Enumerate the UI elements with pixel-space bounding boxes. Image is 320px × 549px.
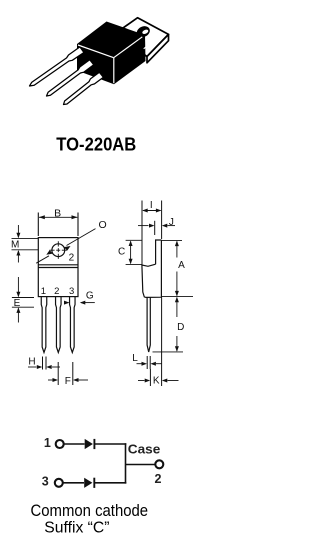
svg-text:O: O	[99, 219, 107, 231]
svg-text:L: L	[132, 353, 138, 364]
dim H	[28, 357, 60, 370]
dim D	[153, 297, 184, 352]
svg-text:TO-220AB: TO-220AB	[56, 134, 136, 154]
lead 2	[47, 60, 94, 96]
svg-text:3: 3	[42, 475, 49, 489]
front view outline	[38, 238, 78, 297]
svg-text:2: 2	[54, 286, 59, 297]
svg-text:1: 1	[44, 436, 51, 450]
wire D2 to junction	[94, 482, 126, 484]
lead 1	[30, 47, 84, 86]
svg-text:E: E	[14, 298, 21, 309]
terminal 1 circle	[56, 440, 64, 448]
mounting hole	[52, 244, 65, 257]
dim K	[138, 297, 179, 386]
dim B	[37, 213, 39, 237]
svg-text:3: 3	[69, 286, 74, 297]
tab hole inner highlight	[142, 29, 149, 35]
svg-text:K: K	[153, 376, 160, 387]
svg-text:B: B	[54, 207, 61, 219]
wire D1 to junction	[94, 443, 126, 445]
terminal 3 circle	[55, 479, 63, 487]
svg-text:Case: Case	[128, 441, 161, 456]
dim C	[126, 240, 143, 264]
tab mounting hole	[135, 24, 152, 39]
svg-text:G: G	[86, 291, 94, 302]
side tab	[156, 240, 162, 264]
svg-text:I: I	[150, 200, 153, 211]
dim F	[48, 362, 88, 385]
dim I	[141, 201, 143, 266]
common cathode junction wire	[125, 443, 127, 483]
wire pin1 to diode D1	[64, 443, 84, 445]
dim O leader	[67, 229, 96, 246]
front lead 1	[41, 297, 75, 353]
pin numbers 1 2 3	[41, 286, 74, 297]
svg-text:F: F	[65, 376, 71, 387]
dim E	[12, 277, 34, 323]
svg-text:1: 1	[41, 286, 46, 297]
svg-text:J: J	[169, 217, 174, 228]
front lead 3	[70, 297, 76, 353]
svg-text:D: D	[177, 322, 184, 333]
dim L	[137, 356, 163, 369]
svg-text:A: A	[178, 260, 185, 271]
svg-text:H: H	[28, 356, 35, 367]
hole centerlines	[49, 241, 67, 259]
diode D2	[84, 478, 92, 488]
front lead 2	[56, 297, 62, 353]
molded body	[77, 22, 146, 85]
diode D1	[85, 439, 93, 449]
dim G	[64, 301, 95, 305]
tab plate top face	[115, 18, 169, 57]
body-tab junction highlight	[144, 41, 154, 49]
body edge highlight front-right corner	[113, 58, 115, 83]
body edge highlight top-right	[114, 37, 143, 58]
tab/body seam lines	[38, 264, 78, 266]
wire pin3 to diode D2	[63, 482, 84, 484]
lead 3	[64, 72, 104, 104]
svg-text:2: 2	[69, 252, 75, 263]
svg-text:2: 2	[155, 472, 162, 486]
wire junction to case terminal	[126, 464, 156, 466]
dim J	[138, 221, 175, 235]
dim A	[162, 240, 194, 296]
svg-text:C: C	[118, 247, 125, 258]
tab plate thickness side	[147, 34, 169, 62]
side lead	[147, 297, 150, 352]
dim M	[12, 225, 39, 263]
side body	[142, 240, 162, 297]
svg-text:Suffix “C”: Suffix “C”	[44, 520, 109, 537]
svg-text:M: M	[11, 240, 19, 251]
terminal 2 (case) circle	[155, 460, 163, 468]
body edge highlight top-front	[78, 45, 114, 58]
svg-text:Common cathode: Common cathode	[31, 501, 149, 520]
